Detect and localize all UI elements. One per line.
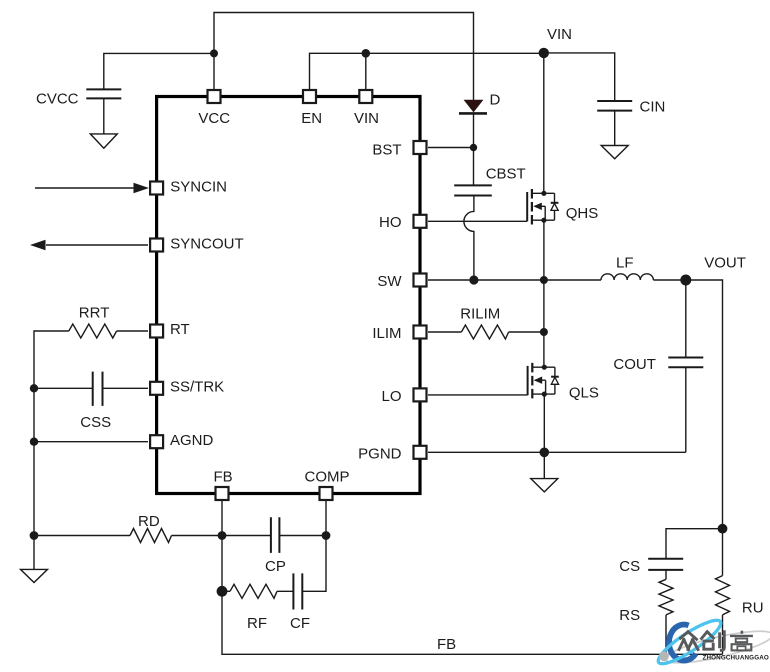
svg-text:CF: CF — [290, 615, 310, 632]
pin AGND — [150, 435, 163, 448]
wire SS/TRK to CSS — [103, 387, 149, 389]
pin PGND — [414, 446, 427, 459]
wire rail to RD — [34, 535, 130, 537]
svg-text:QLS: QLS — [569, 384, 599, 401]
pin VCC — [208, 90, 221, 103]
node SW/rail junction — [540, 276, 548, 284]
svg-text:VIN: VIN — [354, 110, 379, 127]
wire SYNCOUT arrow line — [46, 244, 148, 246]
wire ILIM to RILIM — [428, 331, 461, 333]
wire VIN pin stub — [365, 53, 367, 89]
transistor QLS — [528, 363, 559, 399]
svg-text:ZHONGCHUANGGAO: ZHONGCHUANGGAO — [703, 655, 769, 662]
svg-text:CS: CS — [619, 558, 640, 575]
inductor LF — [601, 274, 653, 280]
node COMP junction — [322, 531, 331, 540]
node ILIM junction — [540, 328, 548, 336]
svg-text:VOUT: VOUT — [704, 254, 746, 271]
wire CBST to SW with hop — [464, 196, 474, 281]
wire FB node to CP — [222, 535, 271, 537]
svg-text:RD: RD — [138, 513, 160, 530]
wire CS to RS — [665, 570, 667, 579]
node SW/CBST junction — [469, 275, 478, 284]
wire RS to FB line — [665, 615, 667, 654]
arrow SYNCOUT — [30, 240, 46, 250]
svg-text:CIN: CIN — [640, 99, 666, 116]
wire VOUT to COUT — [685, 280, 687, 358]
pin HO — [414, 215, 427, 228]
wire FB node to bottom FB line — [222, 591, 723, 654]
resistor RU — [716, 576, 730, 615]
svg-text:SYNCIN: SYNCIN — [170, 179, 227, 196]
pin EN — [303, 90, 316, 103]
ground analog — [21, 569, 48, 582]
svg-text:FB: FB — [437, 636, 456, 653]
pin FB — [216, 487, 229, 500]
resistor RF — [230, 584, 277, 598]
transistor QHS — [527, 189, 558, 225]
ground CVCC — [90, 134, 117, 148]
capacitor CF — [293, 573, 302, 609]
wire CVCC to ground — [103, 98, 105, 133]
svg-text:CVCC: CVCC — [36, 90, 79, 107]
wire VIN node to CIN — [544, 53, 615, 101]
svg-text:PGND: PGND — [358, 446, 402, 463]
svg-text:FB: FB — [214, 468, 233, 485]
wire RU to FB line — [722, 615, 724, 654]
wire FB pin down — [221, 501, 223, 591]
resistor RS — [659, 579, 673, 615]
ground CIN — [601, 146, 628, 159]
pin SYNCOUT — [150, 239, 163, 252]
wire QHS source to QLS drain — [543, 220, 545, 367]
svg-text:QHS: QHS — [566, 205, 599, 222]
svg-text:COMP: COMP — [305, 468, 350, 485]
svg-text:RF: RF — [247, 615, 267, 632]
resistor RILIM — [461, 325, 508, 339]
wire SW to LF — [428, 279, 601, 281]
pin LO — [414, 388, 427, 401]
svg-text:BST: BST — [372, 142, 401, 159]
wire LO to QLS gate — [428, 394, 528, 396]
node AGND junction — [30, 438, 38, 446]
node VIN rail — [539, 48, 549, 58]
node VIN pin junction — [362, 49, 371, 58]
svg-text:SW: SW — [377, 273, 402, 290]
wire AGND to rail — [34, 441, 148, 443]
capacitor COUT — [668, 358, 703, 368]
node FB/RF junction — [217, 586, 228, 597]
wire SYNCIN arrow line — [35, 187, 134, 189]
wire EN up and over to VIN node — [310, 53, 544, 89]
wire RF to CF — [277, 590, 293, 592]
node SS junction — [30, 384, 38, 392]
node VOUT — [680, 275, 691, 286]
wire CIN to ground — [614, 111, 616, 146]
svg-text:SS/TRK: SS/TRK — [170, 379, 224, 396]
wire COMP pin down — [325, 501, 327, 536]
pin SW — [414, 274, 427, 287]
svg-text:LF: LF — [616, 254, 634, 271]
svg-text:RILIM: RILIM — [460, 305, 500, 322]
svg-text:HO: HO — [379, 214, 402, 231]
wire VCC pin to node — [213, 53, 215, 89]
IC U1 body — [157, 97, 420, 494]
resistor RD — [130, 529, 172, 543]
wire node down to CBST — [473, 148, 475, 186]
pin SS/TRK — [150, 382, 163, 395]
node VCC junction — [210, 49, 218, 57]
svg-text:ILIM: ILIM — [372, 325, 401, 342]
capacitor CBST — [454, 185, 492, 195]
wire BST to diode node — [428, 147, 474, 149]
pin SYNCIN — [150, 182, 163, 195]
diode D — [459, 100, 487, 147]
capacitor CS — [648, 559, 683, 570]
wire PGND to COUT — [428, 451, 686, 453]
arrow SYNCIN — [134, 183, 150, 193]
wire VIN rail to QHS drain — [543, 53, 545, 193]
wire RRT to left rail — [34, 331, 69, 569]
node FB/RD junction — [218, 531, 227, 540]
wire CVCC to VCC node — [104, 53, 214, 89]
pin ILIM — [414, 326, 427, 339]
wire CP to COMP node — [279, 535, 326, 537]
pin VIN — [359, 90, 372, 103]
wire FB node to RF — [222, 590, 230, 592]
wire top rail VCC node to diode anode — [214, 13, 474, 101]
node PGND junction — [540, 448, 550, 458]
wire RD to FB node — [172, 535, 223, 537]
svg-text:RRT: RRT — [79, 304, 110, 321]
capacitor CSS — [93, 372, 103, 406]
svg-text:VIN: VIN — [547, 26, 572, 43]
svg-text:CP: CP — [265, 558, 286, 575]
wire RILIM to rail — [509, 331, 544, 333]
wire VOUT node to CS — [666, 529, 723, 559]
pin RT — [150, 325, 163, 338]
svg-text:COUT: COUT — [613, 356, 656, 373]
wire COUT bottom — [685, 367, 687, 452]
pin BST — [414, 141, 427, 154]
wire LF to VOUT rail — [653, 280, 722, 529]
svg-text:RU: RU — [742, 599, 764, 616]
svg-text:VCC: VCC — [198, 110, 230, 127]
svg-text:EN: EN — [301, 110, 322, 127]
wire CF to COMP node — [302, 536, 326, 592]
svg-text:RS: RS — [619, 607, 640, 624]
svg-text:CSS: CSS — [80, 414, 111, 431]
node CS/RU junction — [718, 524, 728, 534]
wire RU top — [722, 529, 724, 576]
ground power — [531, 479, 558, 492]
svg-text:CBST: CBST — [486, 166, 526, 183]
capacitor CVCC — [86, 89, 121, 98]
wire RRT right lead — [117, 330, 148, 332]
wire CSS to rail — [34, 387, 93, 389]
capacitor CIN — [597, 101, 632, 111]
pin COMP — [320, 487, 333, 500]
svg-text:LO: LO — [381, 388, 401, 405]
svg-text:AGND: AGND — [170, 432, 214, 449]
wire QLS source to power ground — [543, 394, 545, 479]
node RD junction — [30, 531, 39, 540]
wire HO to QHS gate — [428, 220, 527, 222]
logo zhongchuanggao — [654, 614, 770, 670]
resistor RRT — [69, 324, 117, 338]
svg-text:D: D — [490, 92, 501, 109]
node BST/CBST junction — [470, 144, 477, 151]
svg-text:RT: RT — [170, 321, 190, 338]
svg-text:SYNCOUT: SYNCOUT — [170, 235, 243, 252]
capacitor CP — [271, 517, 280, 553]
